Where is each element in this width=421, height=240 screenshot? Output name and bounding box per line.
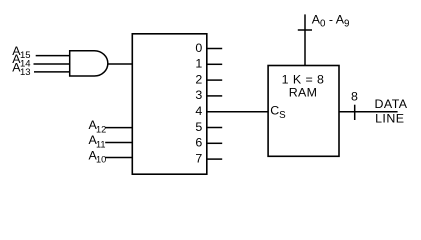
wire A10 to decoder bbox=[105, 157, 133, 159]
wire decoder output 1 stub bbox=[207, 63, 222, 65]
wire decoder output 4 to RAM CS bbox=[207, 111, 268, 113]
svg-text:8: 8 bbox=[351, 90, 358, 104]
svg-text:DATA: DATA bbox=[375, 97, 408, 111]
AND gate bbox=[70, 51, 108, 76]
wire decoder output 6 stub bbox=[207, 142, 222, 144]
svg-text:4: 4 bbox=[195, 104, 202, 118]
RAM block U2 (1K x 8 RAM) bbox=[268, 66, 339, 157]
svg-text:LINE: LINE bbox=[375, 112, 404, 126]
decoder block (3-to-8 decoder) bbox=[132, 34, 207, 174]
wire decoder output 0 stub bbox=[207, 48, 222, 50]
wire decoder output 5 stub bbox=[207, 127, 222, 129]
wire address bus A0-A9 into RAM top bbox=[304, 14, 306, 65]
svg-text:5: 5 bbox=[195, 120, 202, 134]
wire decoder output 3 stub bbox=[207, 95, 222, 97]
svg-text:1: 1 bbox=[195, 57, 202, 71]
svg-text:3: 3 bbox=[195, 88, 202, 102]
wire decoder output 2 stub bbox=[207, 79, 222, 81]
wire data bus from RAM right bbox=[339, 111, 398, 113]
svg-text:1 K = 8: 1 K = 8 bbox=[282, 73, 325, 87]
wire A11 to decoder bbox=[105, 142, 133, 144]
bus tick on data bus bbox=[354, 105, 356, 120]
svg-text:0: 0 bbox=[195, 41, 202, 55]
svg-text:RAM: RAM bbox=[289, 86, 317, 100]
svg-text:2: 2 bbox=[195, 72, 202, 86]
wire A14 to AND gate bbox=[34, 63, 71, 65]
wire AND gate output to decoder enable bbox=[108, 63, 133, 65]
bus tick on address bus bbox=[298, 29, 312, 31]
wire A12 to decoder bbox=[105, 127, 133, 129]
wire A15 to AND gate bbox=[36, 55, 70, 57]
svg-text:6: 6 bbox=[195, 136, 202, 150]
svg-text:7: 7 bbox=[195, 151, 202, 165]
wire A13 to AND gate bbox=[34, 71, 70, 73]
wire decoder output 7 stub bbox=[207, 158, 222, 160]
